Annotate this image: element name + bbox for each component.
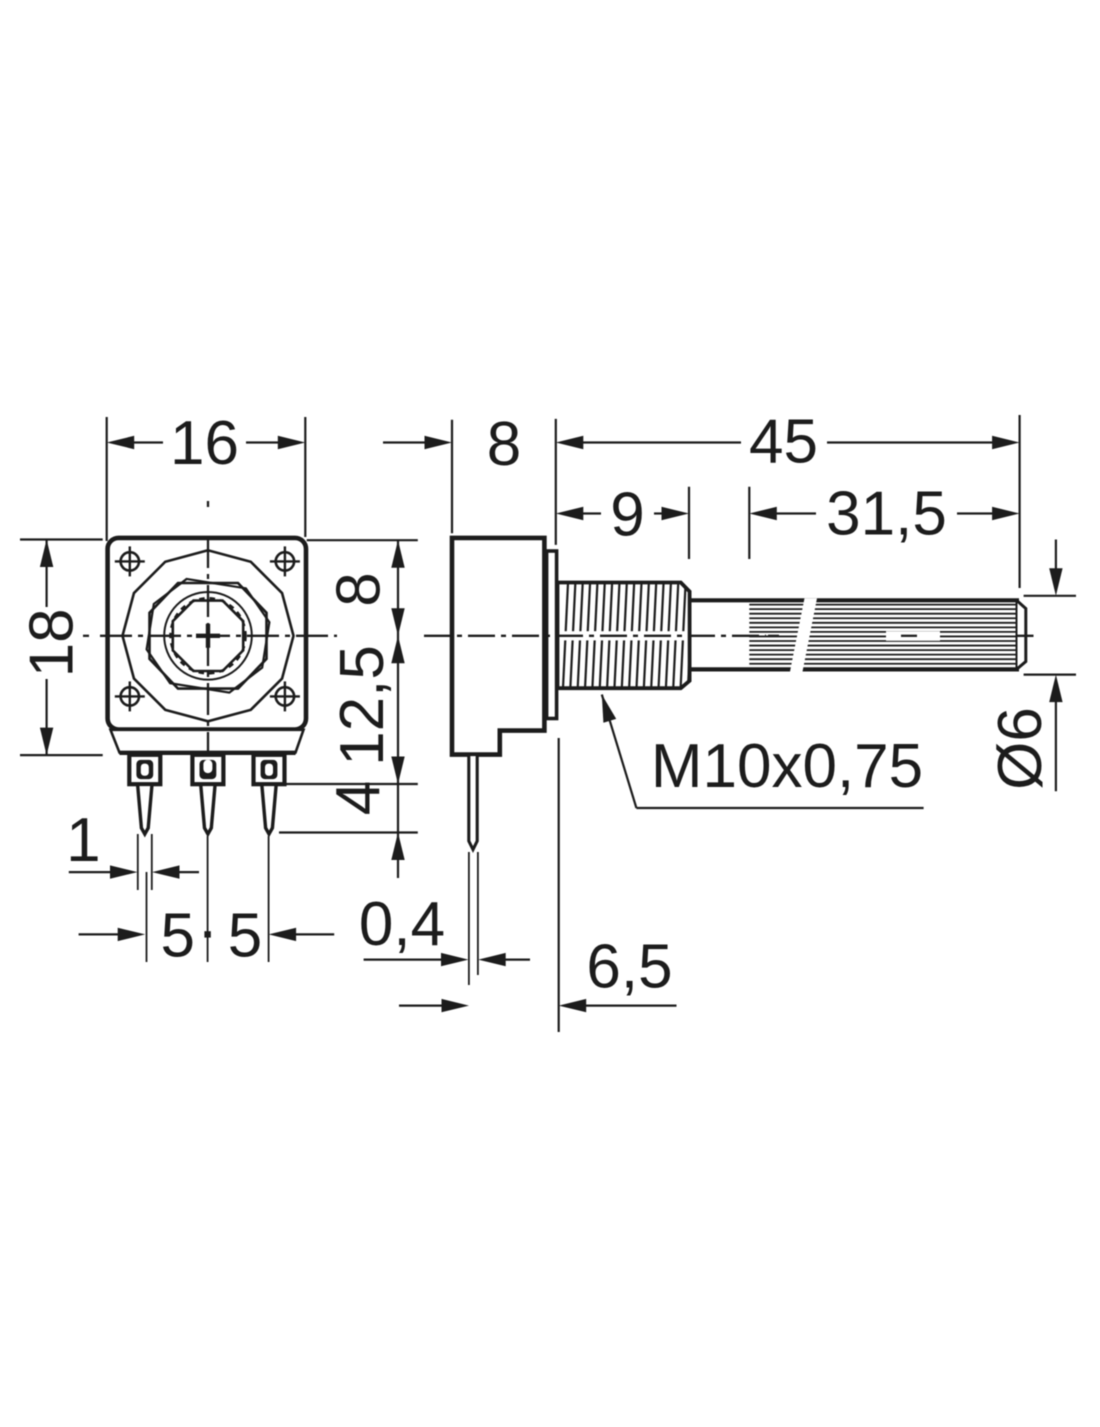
svg-text:4: 4 bbox=[324, 781, 393, 815]
svg-text:16: 16 bbox=[170, 409, 239, 478]
svg-text:9: 9 bbox=[610, 481, 644, 550]
svg-text:M10x0,75: M10x0,75 bbox=[651, 732, 923, 801]
svg-text:6,5: 6,5 bbox=[586, 933, 672, 1002]
svg-text:0,4: 0,4 bbox=[359, 890, 445, 959]
svg-text:Ø6: Ø6 bbox=[986, 707, 1055, 790]
svg-text:5: 5 bbox=[161, 902, 195, 971]
svg-text:18: 18 bbox=[18, 608, 87, 677]
svg-text:8: 8 bbox=[325, 572, 394, 606]
svg-text:45: 45 bbox=[749, 408, 818, 477]
svg-text:5: 5 bbox=[228, 902, 262, 971]
svg-text:8: 8 bbox=[487, 410, 521, 479]
svg-text:1: 1 bbox=[66, 806, 100, 875]
svg-text:31,5: 31,5 bbox=[826, 480, 947, 549]
svg-text:12,5: 12,5 bbox=[328, 645, 397, 766]
